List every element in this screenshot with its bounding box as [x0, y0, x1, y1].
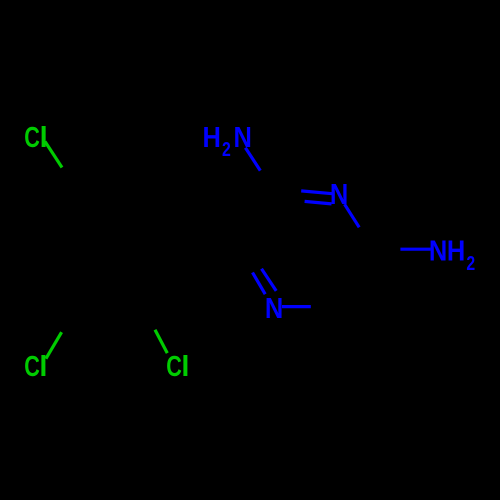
- svg-text:2: 2: [466, 253, 475, 275]
- svg-text:C: C: [24, 122, 40, 154]
- svg-text:l: l: [40, 122, 48, 154]
- svg-text:C: C: [166, 351, 182, 383]
- svg-text:2: 2: [222, 139, 231, 161]
- svg-text:N: N: [265, 293, 283, 325]
- svg-text:C: C: [24, 351, 40, 383]
- svg-text:l: l: [181, 351, 189, 383]
- svg-text:l: l: [39, 351, 47, 383]
- svg-text:H: H: [447, 236, 465, 268]
- svg-text:N: N: [234, 122, 252, 154]
- svg-text:N: N: [429, 236, 447, 268]
- svg-text:N: N: [330, 179, 348, 211]
- svg-text:H: H: [203, 122, 221, 154]
